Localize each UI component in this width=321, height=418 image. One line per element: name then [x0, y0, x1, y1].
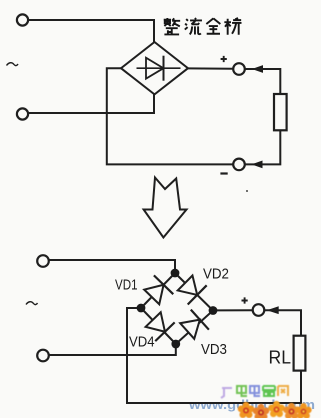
AC source symbol ~ (lower circuit): [26, 302, 38, 305]
wire edge node B to node A (VD1 branch): [141, 273, 175, 308]
resistor R (upper circuit load): [274, 94, 287, 130]
wire U1 right corner to plus terminal: [188, 67, 233, 69]
diode VD2: [176, 273, 207, 304]
bridge rectifier package U1 (diamond outline): [121, 42, 188, 94]
junction node D (right): [209, 306, 218, 315]
wire resistor RL to bottom rail: [300, 371, 302, 403]
wire J1 to bridge top corner: [28, 20, 154, 42]
terminal + (lower circuit): [253, 304, 265, 316]
terminal J1 (top AC input, upper circuit): [17, 14, 28, 25]
wire node D to + terminal (lower circuit): [217, 309, 252, 311]
wire resistor R to - terminal: [245, 130, 280, 164]
arrowhead into + terminal: [252, 65, 263, 73]
junction node B (left): [137, 304, 146, 313]
bottom return rail wire to node B: [127, 308, 301, 403]
svg-text:RL: RL: [269, 346, 292, 367]
wire edge node C to node D (VD3 branch): [176, 311, 213, 345]
wire edge node A to node D (VD2 branch): [175, 273, 213, 311]
terminal J2 (bottom AC input, upper circuit): [17, 108, 28, 119]
svg-text:VD4: VD4: [129, 334, 155, 351]
terminal J3 (top AC input, lower circuit): [37, 255, 49, 267]
arrowhead into + terminal (lower): [267, 306, 279, 314]
wire J2 to bridge bottom corner: [28, 94, 154, 113]
terminal + (upper circuit output): [233, 63, 245, 75]
transformation arrow (hollow, pointing down): [144, 178, 187, 238]
wire + terminal to resistor R: [245, 69, 280, 94]
junction node C (bottom): [171, 340, 180, 349]
wire + terminal to resistor RL: [264, 310, 301, 335]
label 整流全桥 (title, hand-drawn CJK glyphs): [164, 18, 242, 35]
glyph 整: [164, 18, 180, 34]
AC source symbol ~ (upper circuit): [7, 63, 19, 66]
resistor RL (load): [294, 336, 306, 371]
label + (lower): [242, 297, 248, 303]
wire J3 to node A: [49, 260, 175, 273]
junction node A (top): [171, 269, 180, 278]
diode VD1: [142, 275, 173, 306]
terminal - (upper circuit output): [233, 159, 245, 171]
watermark row 1: colored CJK site name: [221, 385, 288, 398]
arrowhead into - terminal: [252, 161, 263, 169]
watermark flowers cluster: [238, 401, 312, 418]
wire U1 left corner to minus rail: [107, 68, 233, 164]
diode VD3: [178, 310, 209, 341]
diode symbol inside U1: [137, 56, 181, 81]
wire J4 to node C: [49, 344, 176, 355]
wire edge node B to node C (VD4 branch): [141, 308, 176, 344]
wire bottom return rail (overlay pass above watermark): [127, 371, 301, 403]
glyph 桥: [224, 18, 241, 35]
terminal J4 (bottom AC input, lower circuit): [37, 350, 49, 362]
label - (upper): [220, 172, 227, 174]
stray dot speck: [246, 190, 248, 192]
label + (upper): [221, 56, 227, 62]
glyph 全: [206, 18, 220, 33]
svg-text:VD3: VD3: [201, 341, 227, 358]
diode VD4: [143, 310, 174, 341]
svg-text:VD2: VD2: [203, 266, 229, 283]
svg-text:VD1: VD1: [115, 277, 138, 294]
glyph 流: [185, 18, 202, 34]
